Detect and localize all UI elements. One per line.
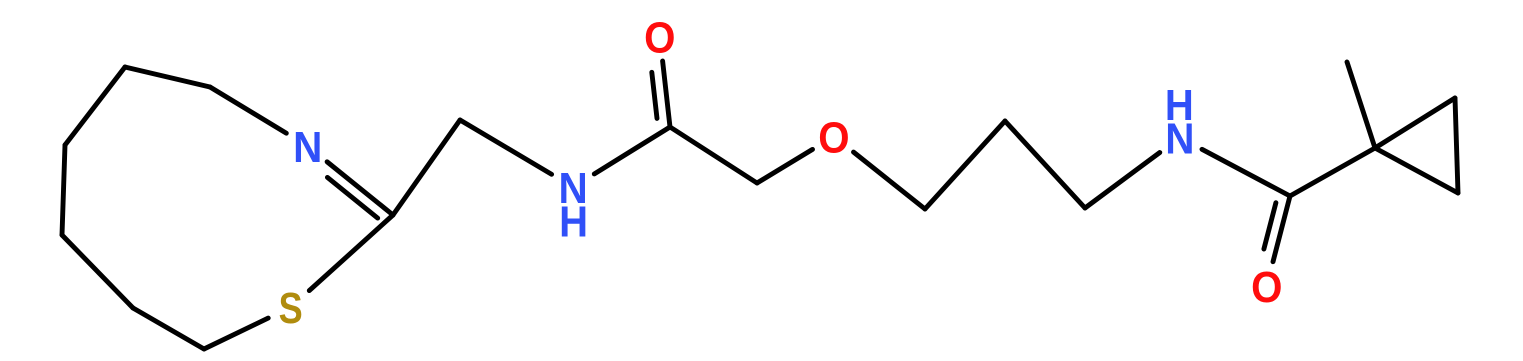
svg-text:H: H: [1165, 80, 1194, 129]
svg-text:O: O: [1251, 262, 1282, 311]
svg-text:O: O: [818, 113, 849, 162]
svg-text:S: S: [279, 284, 303, 333]
svg-text:H: H: [559, 197, 588, 246]
svg-text:N: N: [293, 123, 322, 172]
svg-text:O: O: [644, 13, 675, 62]
